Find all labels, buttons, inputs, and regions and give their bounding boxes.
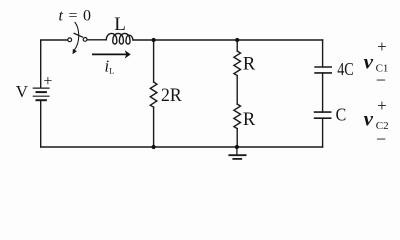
svg-text:L: L — [114, 14, 126, 35]
battery short plate 1 — [36, 91, 47, 93]
wire: battery bottom to bottom rail — [40, 100, 42, 147]
node dot: middle branch top junction — [235, 38, 239, 42]
resistor 2R — [150, 82, 157, 107]
wire: below capacitor C to bottom rail — [322, 118, 324, 147]
node dot: 2R bottom junction — [152, 145, 156, 149]
wire: inductor to top-right corner — [133, 39, 323, 41]
svg-text:2R: 2R — [161, 86, 182, 106]
wire bottom rail — [41, 146, 323, 148]
switch arc arrowhead — [73, 49, 78, 55]
switch blade — [74, 33, 83, 37]
svg-text:t = 0: t = 0 — [59, 8, 92, 25]
current arrow iL — [92, 50, 131, 58]
svg-text:v: v — [364, 107, 374, 131]
capacitor C plates — [314, 112, 332, 118]
switch motion arc — [74, 22, 79, 51]
wire: between capacitors — [322, 73, 324, 112]
battery short plate 2 — [36, 99, 47, 101]
battery V — [33, 88, 50, 100]
svg-text:iL: iL — [105, 56, 115, 75]
svg-text:V: V — [16, 82, 29, 101]
wire: switch right contact to inductor — [87, 39, 106, 41]
svg-text:+: + — [377, 96, 387, 115]
inductor L — [106, 33, 133, 44]
svg-text:C: C — [336, 104, 347, 124]
wire: 2R branch top — [153, 40, 155, 82]
svg-text:−: − — [376, 129, 386, 149]
node dot: inductor / 2R top junction — [152, 38, 156, 42]
battery long plate 2 — [33, 95, 50, 97]
wire: middle branch bottom — [236, 129, 238, 147]
wire: right branch down to capacitor 4C — [322, 40, 324, 67]
svg-text:R: R — [243, 110, 256, 130]
wire: 2R branch bottom — [153, 107, 155, 147]
wire: middle branch top — [236, 40, 238, 51]
battery long plate 1 — [33, 87, 50, 89]
svg-text:−: − — [376, 70, 386, 90]
svg-text:v: v — [364, 49, 374, 73]
switch left contact circle — [68, 38, 72, 42]
switch t=0 : contacts — [68, 38, 87, 42]
wire top-left: corner to switch left contact — [41, 40, 68, 88]
svg-text:4C: 4C — [337, 59, 354, 79]
resistor R (upper) — [234, 51, 241, 76]
node dot: ground junction — [235, 145, 239, 149]
capacitor 4C plates — [314, 67, 332, 73]
svg-text:+: + — [43, 73, 52, 90]
wire: middle branch between resistors — [236, 76, 238, 104]
resistor R (lower) — [234, 104, 241, 129]
svg-text:+: + — [377, 37, 387, 56]
switch right contact circle — [83, 38, 87, 42]
ground — [228, 147, 246, 159]
svg-text:R: R — [243, 55, 256, 75]
